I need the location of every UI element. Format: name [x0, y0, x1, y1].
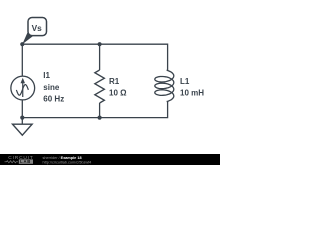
node label Vs box	[28, 18, 47, 36]
ground symbol triangle	[13, 124, 33, 135]
wire R1 bottom lead	[99, 103, 101, 118]
wire top rail	[22, 44, 167, 70]
wire left branch lower (I1 bottom to ground node)	[21, 100, 23, 118]
footer bar	[0, 154, 220, 165]
current source I1 body circle	[11, 76, 35, 100]
node A junction dot (Vs node)	[20, 42, 24, 46]
svg-text:LAB: LAB	[20, 159, 31, 164]
schematic canvas	[0, 0, 220, 165]
inductor L1 coil	[155, 70, 174, 101]
wire left branch upper (node Vs to I1 top)	[21, 44, 23, 76]
resistor R1 zigzag	[95, 70, 105, 103]
logo LAB text	[19, 159, 33, 163]
node B junction dot (top of R1)	[98, 42, 102, 46]
current source I1 arrow	[21, 78, 26, 97]
svg-text:http://circuitlab.com/c/5bzwf4: http://circuitlab.com/c/5bzwf4	[43, 160, 92, 164]
wire R1 top lead	[99, 44, 101, 70]
wire bottom rail	[22, 101, 167, 117]
svg-text:sherrider / Example 18: sherrider / Example 18	[43, 156, 82, 160]
node label Vs pointer tail	[22, 32, 33, 44]
ground stub wire	[21, 118, 23, 125]
logo resistor zigzag	[5, 161, 19, 163]
node C junction dot (ground node)	[20, 116, 24, 120]
current source I1 sine wave	[16, 85, 28, 96]
node D junction dot (bottom of R1)	[98, 116, 102, 120]
